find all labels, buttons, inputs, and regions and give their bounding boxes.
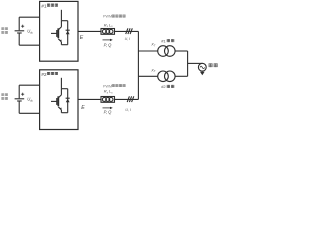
svg-text:#2: #2 xyxy=(161,84,166,89)
wire inverter U1 output xyxy=(78,30,101,32)
wire reactor 1 to corner xyxy=(115,30,139,32)
gate lead xyxy=(51,32,57,34)
wire common bus (vertical) xyxy=(137,31,139,99)
svg-text:Udc: Udc xyxy=(27,97,33,103)
ground (grid reference arrow) xyxy=(200,71,205,75)
wire bus to transformer T2 xyxy=(138,75,157,77)
label PWM电抗线圈 (reactor 2 caption) xyxy=(103,84,126,88)
transformer T2 xyxy=(158,71,175,82)
collector stub up xyxy=(60,78,62,89)
svg-text:U, I: U, I xyxy=(125,108,131,112)
svg-text:XT: XT xyxy=(150,68,156,73)
collector lead xyxy=(60,89,62,95)
wire inverter U2 output xyxy=(78,98,101,100)
three-phase marks (branch 2) xyxy=(127,96,134,102)
top connecting line xyxy=(61,20,67,22)
svg-text:PWM: PWM xyxy=(103,15,112,19)
three-phase marks (branch 1) xyxy=(126,28,133,34)
gate lead xyxy=(51,100,57,102)
inductor L2 (reactor coil, boxed) xyxy=(101,97,115,103)
label #2主变 (transformer 2) xyxy=(161,84,174,89)
svg-text:#1: #1 xyxy=(41,3,47,8)
collector lead xyxy=(60,21,62,27)
diode D2 (anti-parallel) xyxy=(66,89,70,113)
label DC source 2 (直流电源) xyxy=(1,93,7,99)
svg-text:#1: #1 xyxy=(161,38,166,43)
wire right bus to grid source xyxy=(188,62,203,64)
plus sign battery V1 xyxy=(21,25,24,28)
inverter box U2 (#2变流器) xyxy=(40,70,78,130)
transformer T1 xyxy=(158,46,175,57)
svg-text:PWM: PWM xyxy=(103,84,112,88)
wire transformer T1 to right bus xyxy=(175,50,188,52)
bottom connecting line xyxy=(61,112,67,114)
svg-text:Rs Ls: Rs Ls xyxy=(104,22,113,28)
bottom connecting line xyxy=(61,44,67,46)
wire battery V2 top to inverter U2 xyxy=(19,84,39,86)
transistor Q2 (IGBT with freewheel diode) xyxy=(51,78,68,113)
diode D1 (anti-parallel) xyxy=(66,21,70,45)
top connecting line xyxy=(61,88,67,90)
svg-text:P, Q: P, Q xyxy=(104,110,113,115)
label #1主变 (transformer 1) xyxy=(161,38,174,43)
wire right bus (vertical) xyxy=(187,51,189,76)
body bar xyxy=(57,28,59,38)
gate bar xyxy=(56,30,58,37)
label #1变流器 xyxy=(41,3,58,8)
svg-text:XT: XT xyxy=(150,43,156,48)
AC source G1 (grid 电网) xyxy=(198,63,206,71)
gate bar xyxy=(56,98,58,105)
wire bus to transformer T1 xyxy=(138,50,157,52)
wire battery V1 bottom to inverter U1 xyxy=(19,44,39,46)
battery V2 (DC source) xyxy=(15,85,25,113)
svg-text:E: E xyxy=(81,105,85,111)
emitter lead with arrow xyxy=(58,39,61,42)
body bar xyxy=(57,96,59,106)
arrow P,Q flow (branch 1) xyxy=(103,39,113,41)
label DC source 1 (直流电源) xyxy=(1,27,7,33)
label PWM电抗线圈 (reactor 1 caption) xyxy=(103,15,126,19)
battery V1 (DC source) xyxy=(15,17,25,45)
transistor Q1 (IGBT with freewheel diode) xyxy=(51,10,68,45)
svg-text:#2: #2 xyxy=(41,72,47,77)
svg-text:E: E xyxy=(80,35,84,41)
arrow P,Q flow (branch 2) xyxy=(103,107,113,109)
svg-text:Rs Ls: Rs Ls xyxy=(104,89,113,95)
svg-text:Udc: Udc xyxy=(27,29,33,35)
collector stub up xyxy=(60,10,62,21)
inverter box U1 (#1变流器) xyxy=(40,1,78,61)
label #2变流器 xyxy=(41,72,58,77)
inductor L1 (reactor coil, boxed) xyxy=(101,29,115,35)
wire transformer T2 to right bus xyxy=(175,75,188,77)
svg-text:U, I: U, I xyxy=(125,37,131,41)
svg-text:P, Q: P, Q xyxy=(104,42,113,47)
wire battery V1 top to inverter U1 xyxy=(19,16,39,18)
plus sign battery V2 xyxy=(21,93,24,96)
emitter lead with arrow xyxy=(58,107,61,110)
wire reactor 2 to corner xyxy=(115,98,139,100)
wire battery V2 bottom to inverter U2 xyxy=(19,112,39,114)
label 电网 (grid) xyxy=(209,63,218,67)
